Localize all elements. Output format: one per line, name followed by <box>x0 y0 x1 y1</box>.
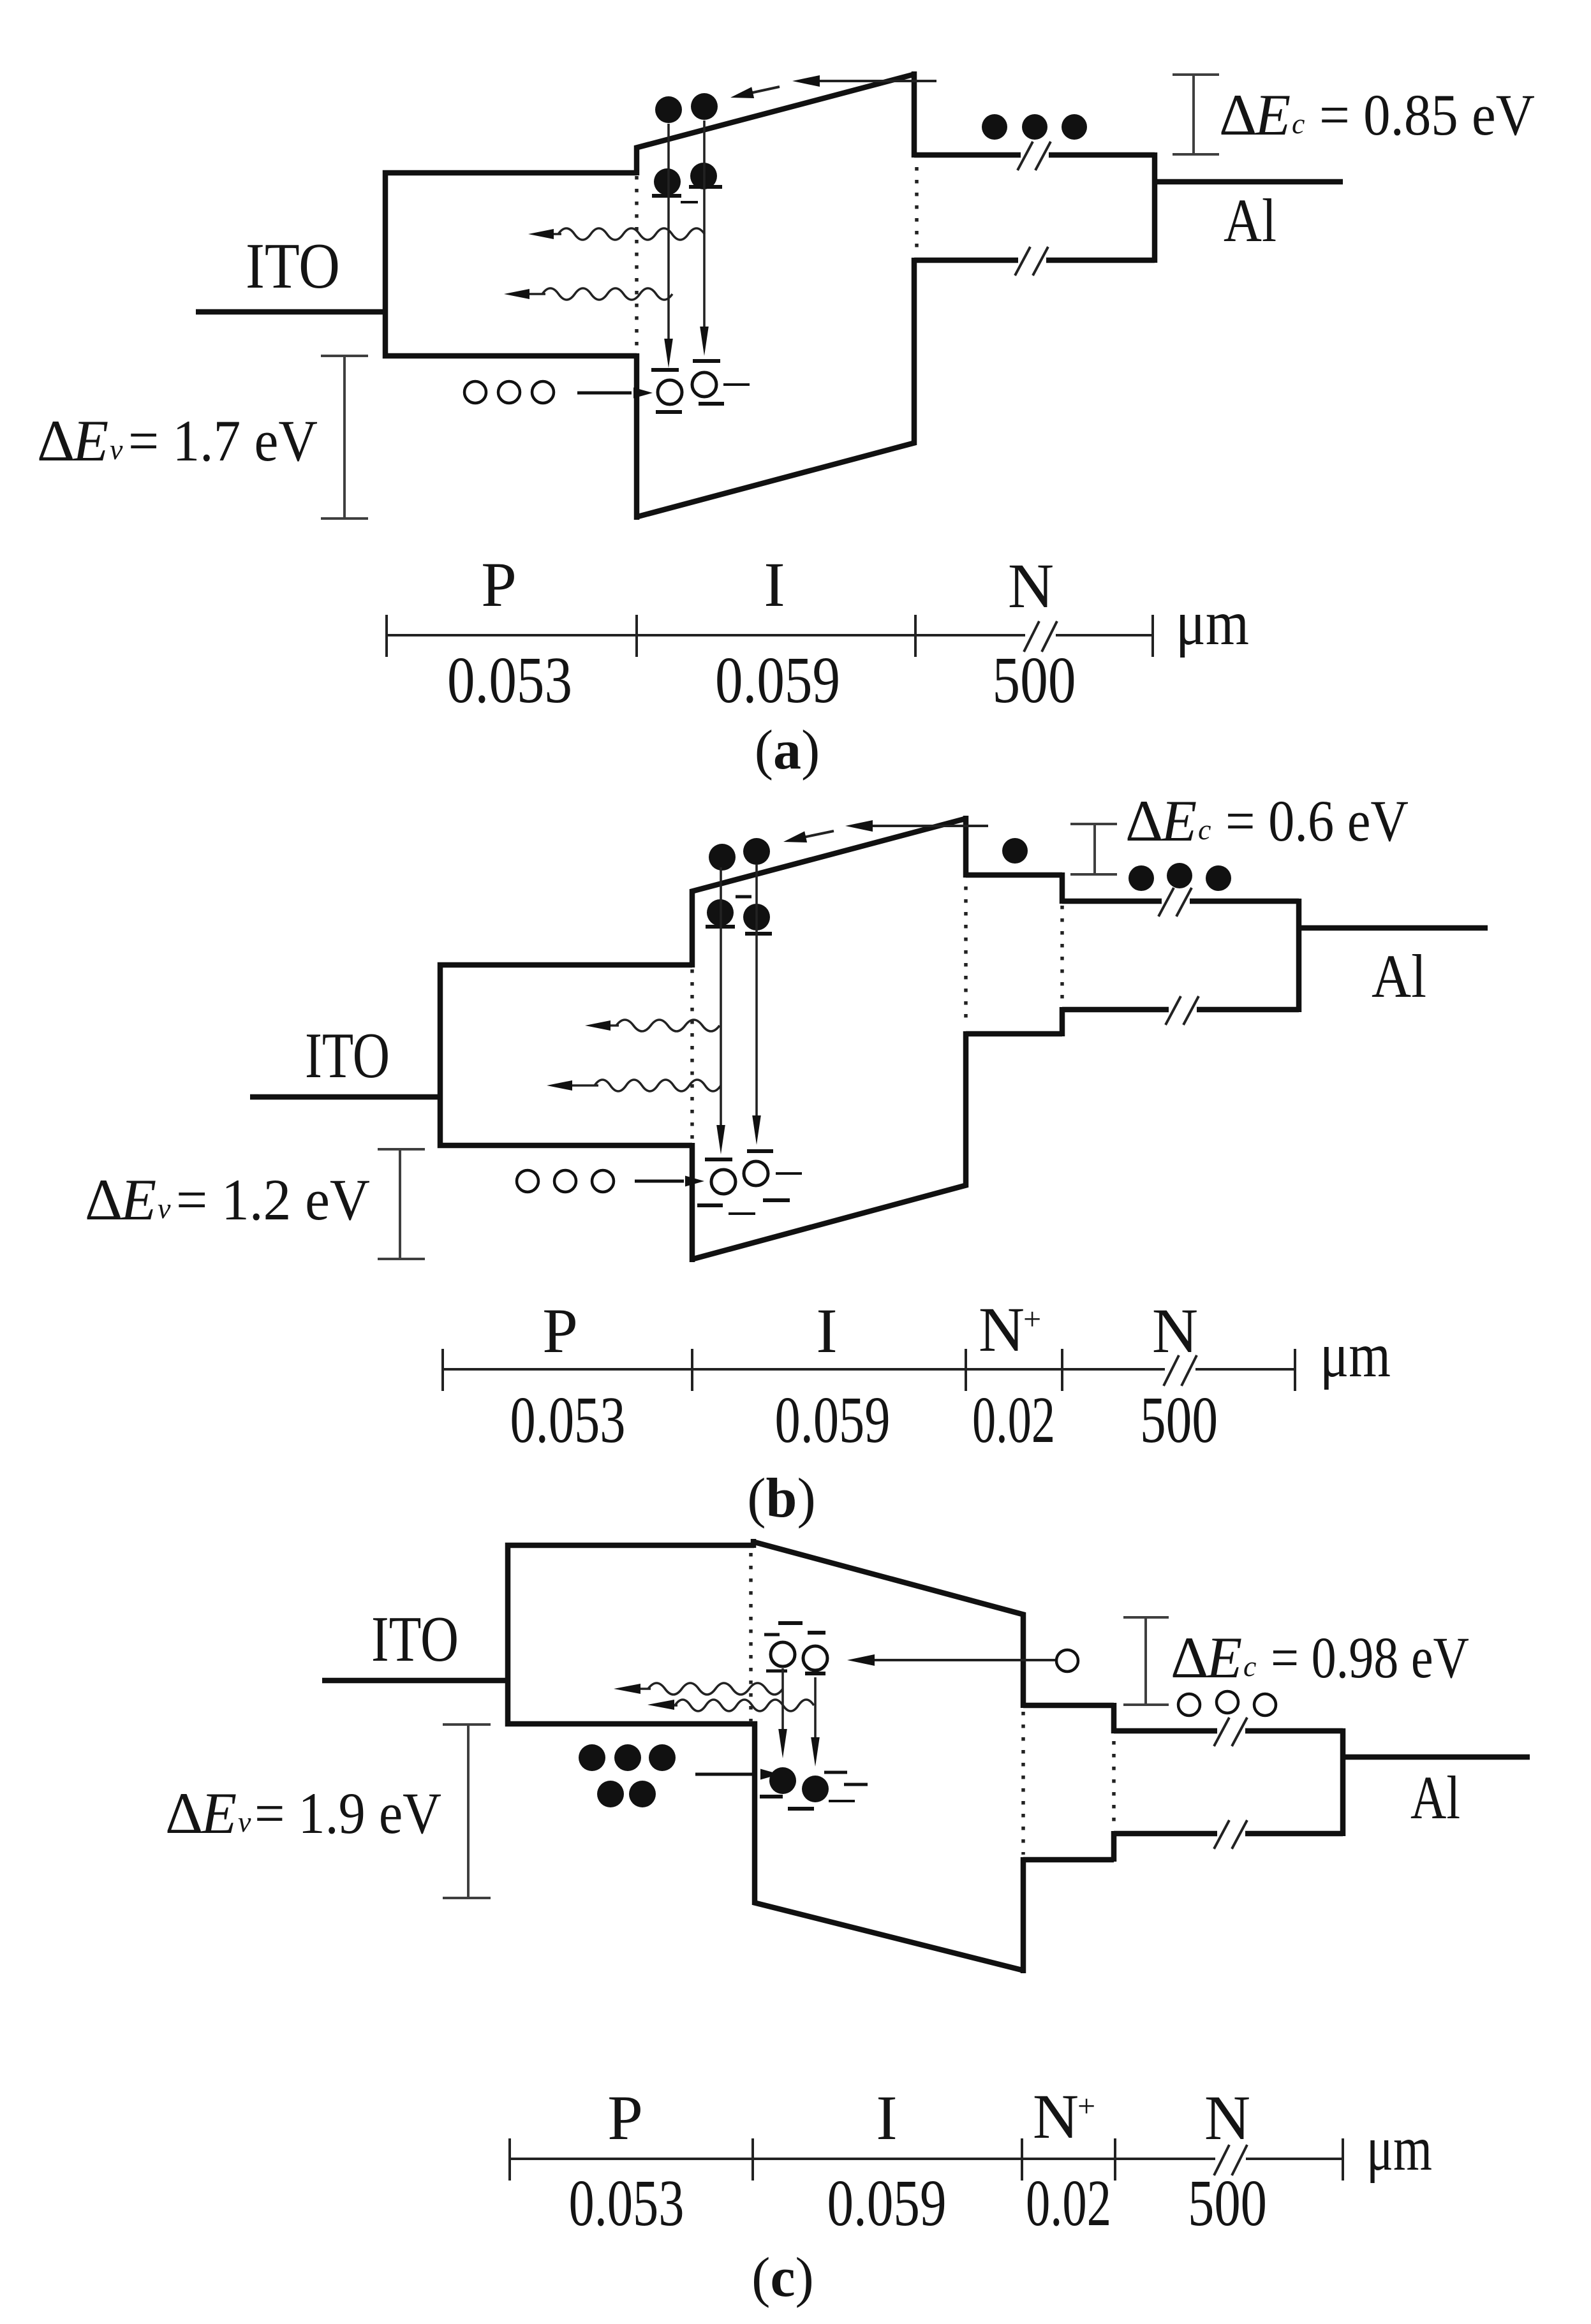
panel a: I/N peak vertical <box>912 71 917 158</box>
panel c: I region Ev drop at P/I <box>752 1721 758 1905</box>
panel c: trapped electron right <box>802 1776 829 1802</box>
panel b: dotted P/I boundary <box>690 969 694 1142</box>
panel b: P region box <box>440 965 692 1145</box>
svg-text:N: N <box>1008 550 1054 621</box>
svg-text:E: E <box>1254 82 1291 147</box>
svg-text:Al: Al <box>1410 1763 1460 1832</box>
panel b: small dash between states <box>736 895 751 899</box>
panel b: I region Ev drop at P/I <box>690 1143 695 1262</box>
panel a: ITO lead line <box>196 309 385 315</box>
svg-text:E: E <box>200 1781 237 1846</box>
panel b: break on N Ev <box>1169 1003 1197 1017</box>
panel c: electron five in P lower row <box>597 1781 624 1807</box>
panel c: N Ev line <box>1114 1831 1343 1837</box>
panel a: I region Ev drop at P/I <box>634 353 640 520</box>
panel a: state line above trapped hole left <box>651 368 679 372</box>
panel b: N+ Ec line <box>966 872 1062 878</box>
panel b: N+/N Ev step <box>1060 1007 1065 1036</box>
svg-text:+: + <box>1077 2088 1095 2124</box>
panel a: scale ruler <box>387 634 1025 636</box>
panel a: I right edge below N Ev <box>912 258 917 445</box>
panel a: recombination arrow 1 <box>667 124 670 344</box>
panel a: dash right of trapped holes <box>723 383 750 386</box>
panel a: N region Ec line <box>914 152 1155 158</box>
svg-text:P: P <box>607 2082 643 2153</box>
svg-text:E: E <box>119 1167 156 1232</box>
svg-text:(c): (c) <box>751 2247 814 2309</box>
svg-text:ITO: ITO <box>371 1603 459 1675</box>
panel b: state line above trapped hole left <box>705 1158 732 1161</box>
panel b: conduction drift arrow short <box>803 831 834 837</box>
panel a: conduction drift arrow long <box>820 80 936 82</box>
panel b: Al lead line <box>1299 925 1488 931</box>
panel c: dotted N+/N boundary <box>1112 1741 1116 1824</box>
panel c: Al contact right edge <box>1340 1728 1346 1836</box>
panel b: single electron at peak <box>1002 838 1028 864</box>
svg-text:Δ: Δ <box>85 1167 122 1232</box>
panel a: state line under lower electron left <box>652 194 681 198</box>
panel c: single hole on N side <box>1056 1650 1078 1672</box>
panel c: I right edge lower <box>1021 1857 1026 1973</box>
panel a: small dash between states <box>681 201 698 203</box>
panel c: trapped electron left <box>769 1767 796 1794</box>
svg-text:ITO: ITO <box>246 230 340 302</box>
panel c: dash below electron left <box>760 1795 783 1798</box>
svg-text:N: N <box>979 1294 1025 1365</box>
panel a: dotted P/I boundary <box>635 176 639 352</box>
svg-text:= 1.7 eV: = 1.7 eV <box>128 408 318 473</box>
panel c: break on N Ec <box>1217 1724 1245 1738</box>
svg-text:0.059: 0.059 <box>827 2166 947 2240</box>
panel a: hole trio in P <box>464 381 486 403</box>
panel b: N+ Ev line <box>966 1031 1062 1037</box>
svg-text:= 0.6 eV: = 0.6 eV <box>1225 788 1409 853</box>
panel c: dash right lower of electrons <box>844 1783 868 1786</box>
svg-text:Δ: Δ <box>1171 1625 1208 1690</box>
panel b: state line above trapped hole right <box>747 1149 773 1153</box>
panel a: Al contact right edge <box>1152 152 1158 263</box>
svg-text:I: I <box>764 549 785 620</box>
svg-text:μm: μm <box>1366 2113 1432 2184</box>
panel b: dotted I/N+ boundary <box>964 886 968 1024</box>
svg-text:(b): (b) <box>747 1467 816 1529</box>
panel b: underline below hole left <box>697 1203 723 1207</box>
panel b: hole injection line <box>635 1180 684 1183</box>
panel c: ITO lead line <box>322 1678 508 1684</box>
panel a: photon wavy arrow 1 <box>558 228 705 240</box>
panel b: trapped hole left <box>711 1170 736 1194</box>
panel a: break on N Ev <box>1018 253 1046 267</box>
svg-text:0.059: 0.059 <box>715 644 840 717</box>
panel c: dash below electron center <box>788 1807 814 1811</box>
svg-text:0.053: 0.053 <box>569 2166 685 2240</box>
panel a: hole injection line <box>577 392 632 395</box>
panel c: dEv bracket <box>467 1725 470 1898</box>
svg-text:μm: μm <box>1176 587 1249 658</box>
svg-text:0.053: 0.053 <box>447 644 572 717</box>
panel c: scale ruler <box>510 2158 1215 2160</box>
panel b: I region Ec slant <box>691 818 967 892</box>
panel b: scale ruler <box>443 1368 1165 1371</box>
panel c: P/I peak step <box>751 1539 757 1548</box>
panel a: Al lead line <box>1155 179 1343 185</box>
panel a: state line above trapped hole right <box>693 359 720 363</box>
svg-text:0.059: 0.059 <box>775 1383 891 1457</box>
svg-text:μm: μm <box>1320 1320 1391 1390</box>
panel a: break on N Ec <box>1021 148 1049 162</box>
panel b: dEv bracket <box>399 1149 401 1259</box>
panel c: dash right upper of electrons <box>824 1771 847 1774</box>
svg-text:500: 500 <box>1188 2166 1267 2240</box>
svg-text:Al: Al <box>1224 186 1276 254</box>
svg-text:0.02: 0.02 <box>1026 2166 1111 2240</box>
svg-text:E: E <box>1205 1625 1242 1690</box>
svg-text:c: c <box>1198 813 1211 846</box>
svg-text:ITO: ITO <box>305 1020 390 1092</box>
panel c: N+ Ev line <box>1023 1857 1114 1863</box>
panel c: electron injection line <box>695 1773 756 1776</box>
svg-text:I: I <box>816 1295 837 1366</box>
panel a: I region Ec slant <box>635 74 915 148</box>
panel c: extra dash right <box>829 1800 855 1802</box>
panel c: hole trio above N Ec <box>1178 1694 1200 1716</box>
panel a: trapped hole left <box>658 380 682 404</box>
panel a: dEv bracket <box>343 356 346 518</box>
panel b: electron pair lower <box>707 899 734 926</box>
panel b: N Ec line <box>1062 899 1299 904</box>
svg-text:I: I <box>876 2082 897 2153</box>
svg-text:Δ: Δ <box>37 408 75 473</box>
svg-text:Δ: Δ <box>165 1781 203 1846</box>
panel b: hole trio in P <box>517 1170 538 1192</box>
svg-text:Δ: Δ <box>1125 788 1163 853</box>
panel b: electron pair upper <box>709 844 736 871</box>
panel a: P/I conduction step <box>634 145 640 175</box>
svg-text:P: P <box>481 549 517 620</box>
panel a: underline below hole left <box>656 410 682 414</box>
panel c: N+ Ec line <box>1023 1703 1114 1709</box>
panel c: I region Ev slant <box>753 1902 1025 1971</box>
svg-text:E: E <box>1160 788 1197 853</box>
svg-text:N: N <box>1152 1295 1198 1366</box>
panel c: dotted I/N+ boundary <box>1021 1712 1025 1855</box>
panel c: hole drift arrow from N side <box>869 1659 1056 1661</box>
panel b: P/I conduction step <box>690 889 695 967</box>
panel b: recombination arrow 2 <box>755 864 758 1118</box>
panel b: state line under lower electron right <box>745 932 772 936</box>
svg-text:N: N <box>1033 2081 1079 2152</box>
panel c: break on N Ev <box>1217 1827 1245 1841</box>
svg-text:+: + <box>1023 1301 1041 1337</box>
panel b: ITO lead line <box>250 1094 440 1100</box>
svg-text:= 0.85 eV: = 0.85 eV <box>1319 82 1535 147</box>
panel c: photon wavy arrow 1 <box>648 1683 783 1695</box>
panel c: I right edge upper <box>1021 1612 1026 1708</box>
panel b: conduction drift arrow long <box>873 825 988 827</box>
panel c: photon wavy arrow 2 <box>675 1700 814 1711</box>
panel a: electron pair lower <box>654 168 681 195</box>
panel a: recombination arrow 2 <box>703 121 706 332</box>
panel c: state dash above hole right <box>808 1631 825 1635</box>
panel a: I region Ev slant <box>635 443 915 517</box>
panel b: dEc bracket <box>1093 824 1096 874</box>
panel a: conduction drift arrow short <box>750 87 780 93</box>
svg-text:(a): (a) <box>755 719 820 781</box>
panel b: underline below hole right <box>763 1198 790 1202</box>
panel b: recombination arrow 1 <box>720 867 722 1128</box>
svg-text:= 1.9 eV: = 1.9 eV <box>255 1781 441 1846</box>
svg-text:Δ: Δ <box>1219 82 1257 147</box>
panel b: Al contact right edge <box>1296 899 1302 1012</box>
svg-text:Al: Al <box>1372 942 1426 1010</box>
panel c: trapped hole right <box>803 1646 827 1670</box>
panel b: break on N Ec <box>1162 894 1190 908</box>
panel c: N Ec line <box>1114 1728 1343 1734</box>
svg-text:P: P <box>542 1295 578 1366</box>
panel b: trapped hole right <box>744 1161 768 1186</box>
panel c: underline below holes <box>766 1670 787 1673</box>
panel a: trapped hole right <box>692 372 716 397</box>
panel b: N Ev line <box>1062 1007 1299 1013</box>
svg-text:= 1.2 eV: = 1.2 eV <box>176 1167 370 1232</box>
panel c: Al lead line <box>1343 1754 1530 1760</box>
panel a: P region box (Ec top, left edge, Ev bottom) <box>385 173 637 356</box>
panel a: dotted I/N boundary <box>915 167 919 253</box>
panel a: dEc bracket <box>1192 75 1195 154</box>
panel a: state line under lower electron right <box>689 185 722 189</box>
panel c: trapped hole left <box>771 1642 795 1666</box>
svg-text:v: v <box>238 1806 251 1838</box>
panel c: dotted P/I boundary <box>749 1553 753 1722</box>
panel b: photon wavy arrow 1 <box>616 1020 720 1031</box>
panel b: N+/N Ec step <box>1060 872 1065 904</box>
panel c: hole relax arrow 1 <box>781 1668 784 1736</box>
panel b: I right edge <box>963 1031 969 1188</box>
panel c: I region Ec slant <box>752 1541 1025 1615</box>
svg-text:500: 500 <box>993 644 1076 717</box>
panel a: N region Ev line <box>914 258 1155 263</box>
svg-text:E: E <box>71 408 108 473</box>
panel c: N+/N Ev step <box>1111 1831 1117 1862</box>
panel c: electron five in P upper row <box>579 1744 605 1771</box>
svg-text:500: 500 <box>1140 1383 1218 1457</box>
svg-text:c: c <box>1243 1650 1256 1682</box>
panel b: I/N+ peak vertical <box>963 816 969 878</box>
panel b: state line under lower electron left <box>706 925 735 929</box>
svg-text:0.02: 0.02 <box>972 1383 1055 1457</box>
svg-text:v: v <box>158 1192 171 1225</box>
panel a: electron trio above N Ec <box>982 114 1007 140</box>
panel b: electron trio above N Ec <box>1128 865 1154 891</box>
panel b: I region Ev slant <box>691 1185 967 1260</box>
panel c: hole relax arrow 2 <box>814 1677 817 1744</box>
panel c: N+/N Ec step <box>1111 1703 1117 1733</box>
panel b: extra dash below holes <box>729 1212 755 1215</box>
svg-text:= 0.98 eV: = 0.98 eV <box>1271 1625 1469 1690</box>
panel a: underline below hole right <box>699 402 724 406</box>
panel c: P region box <box>508 1545 757 1724</box>
svg-text:0.053: 0.053 <box>510 1383 626 1457</box>
panel c: state dash above hole left <box>778 1621 803 1625</box>
panel c: dEc bracket <box>1144 1617 1147 1705</box>
svg-text:c: c <box>1292 107 1305 140</box>
panel b: dotted N+/N boundary <box>1060 906 1064 1005</box>
svg-text:N: N <box>1204 2082 1250 2153</box>
svg-text:v: v <box>110 433 123 466</box>
panel a: photon wavy arrow 2 <box>542 288 672 300</box>
panel b: dash right of trapped holes <box>776 1172 802 1175</box>
panel b: photon wavy arrow 2 <box>595 1080 721 1091</box>
panel a: electron pair upper <box>655 96 682 123</box>
